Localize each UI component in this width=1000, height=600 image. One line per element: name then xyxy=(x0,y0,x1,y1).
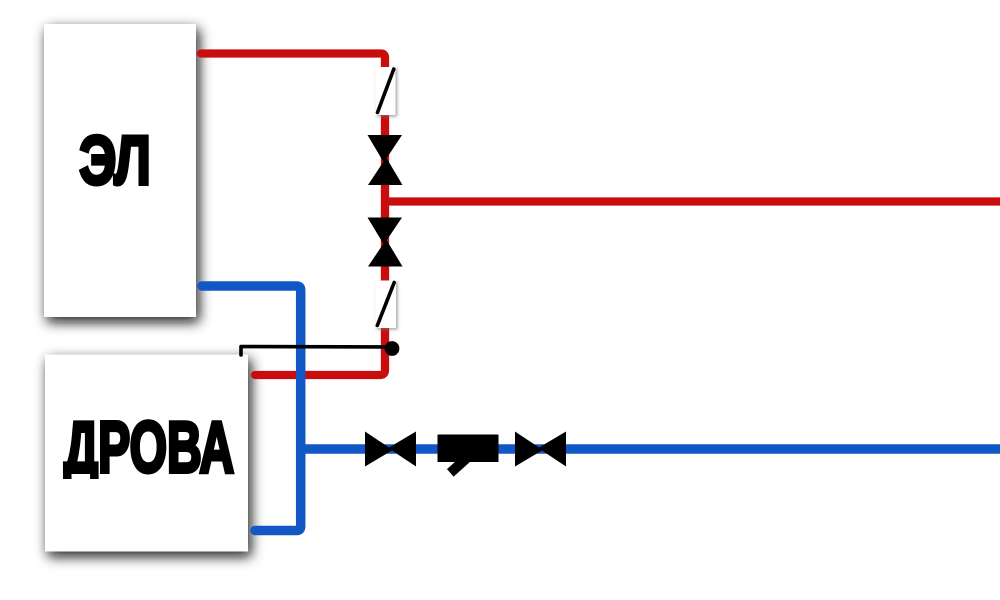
svg-text:ЭЛ: ЭЛ xyxy=(79,122,150,199)
svg-text:ДРОВА: ДРОВА xyxy=(64,407,234,487)
